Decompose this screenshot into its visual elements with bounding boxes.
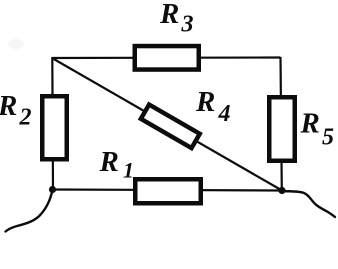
wire: right side from top-right corner down to right junction bbox=[281, 57, 282, 191]
svg-text:R: R bbox=[99, 146, 119, 178]
svg-text:R: R bbox=[300, 108, 320, 140]
resistor R2 (left) bbox=[42, 96, 67, 159]
resistor R4 (diagonal, rotated) bbox=[141, 105, 200, 149]
resistor R5 (right) bbox=[269, 97, 295, 161]
svg-text:1: 1 bbox=[123, 158, 134, 183]
svg-text:R: R bbox=[195, 86, 215, 118]
wire: bottom side from left junction to right junction bbox=[52, 190, 282, 191]
svg-text:R: R bbox=[0, 90, 17, 122]
label R1 bbox=[99, 146, 135, 183]
svg-text:R: R bbox=[159, 0, 179, 30]
svg-text:3: 3 bbox=[181, 12, 194, 38]
svg-text:2: 2 bbox=[19, 105, 32, 131]
label R4 bbox=[195, 86, 231, 127]
junction dot: bottom-left node bbox=[49, 186, 56, 193]
wire: diagonal from top-left corner to right junction bbox=[52, 58, 282, 191]
label R2 bbox=[0, 90, 32, 131]
resistor R3 (top) bbox=[135, 46, 199, 70]
svg-text:5: 5 bbox=[322, 125, 334, 151]
svg-text:4: 4 bbox=[218, 101, 231, 127]
wire: left side from top-left corner down to left junction bbox=[51, 57, 54, 190]
wire: top side from top-left corner to top-right corner bbox=[52, 56, 281, 59]
wire: external lead from left junction (wavy) bbox=[6, 190, 53, 232]
resistor R1 (bottom) bbox=[135, 179, 201, 203]
junction dot: bottom-right node bbox=[278, 187, 285, 194]
label R3 bbox=[159, 0, 194, 38]
label R5 bbox=[300, 108, 335, 151]
wire: external lead from right junction (wavy) bbox=[282, 191, 335, 217]
faint scan smudge top-left bbox=[8, 39, 24, 49]
